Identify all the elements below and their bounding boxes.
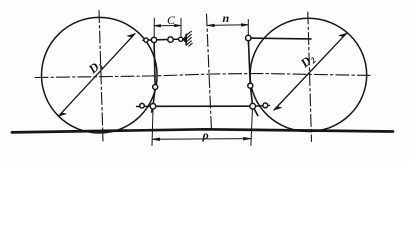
label D1	[85, 57, 106, 78]
svg-text:n: n	[223, 11, 230, 25]
svg-text:ρ: ρ	[202, 128, 209, 142]
ground line	[12, 129, 393, 132]
label D2	[297, 51, 318, 72]
bottom link bar	[153, 105, 253, 107]
diameter arrow D2	[274, 33, 347, 110]
label rho	[202, 128, 209, 142]
dimension n line	[207, 24, 248, 27]
joint ring A3	[168, 37, 173, 42]
joint ring outer-left	[140, 103, 145, 108]
dimension n extension line	[247, 20, 249, 36]
left frame edge	[152, 39, 156, 112]
right frame edge	[248, 38, 257, 116]
wall line	[185, 34, 187, 45]
dimension C line	[154, 24, 181, 27]
svg-text:C: C	[167, 13, 176, 27]
joint ring A2 (top-left hinge)	[151, 37, 156, 42]
dimension rho line	[152, 137, 251, 140]
diameter arrow D1	[59, 34, 135, 116]
wall hatching	[186, 31, 192, 46]
bottom-left stub	[137, 105, 154, 107]
dimension rho extension line right	[251, 110, 253, 146]
label C	[167, 13, 176, 27]
joint ring bottom-right hinge	[250, 103, 256, 109]
wheel D1	[42, 17, 158, 133]
joint ring A1	[144, 38, 148, 42]
joint ring B1 (top-right hinge)	[246, 35, 251, 40]
svg-text:D1: D1	[85, 57, 106, 78]
top-right link rod to wheel centre	[248, 37, 311, 40]
middle centerline	[207, 14, 212, 131]
horizontal axis centerline	[35, 74, 370, 78]
label n	[223, 11, 230, 25]
joint ring mid-left	[153, 85, 158, 90]
top-left link bar	[143, 39, 186, 40]
dimension rho extension line left	[152, 110, 153, 146]
joint ring outer-right	[263, 103, 268, 108]
svg-text:D2: D2	[297, 51, 318, 72]
centerline of wheel D2	[308, 12, 312, 142]
centerline of wheel D1	[99, 11, 103, 142]
joint ring mid-right	[248, 83, 253, 88]
wheel D2	[250, 18, 367, 131]
bottom-right stub	[253, 104, 270, 107]
dimension C extension line right	[180, 18, 182, 36]
joint ring bottom-left hinge	[150, 104, 156, 110]
wall bracket triangle	[183, 36, 187, 43]
dimension C extension line left	[153, 18, 155, 36]
joint ring A4 (wall pivot)	[179, 37, 183, 41]
